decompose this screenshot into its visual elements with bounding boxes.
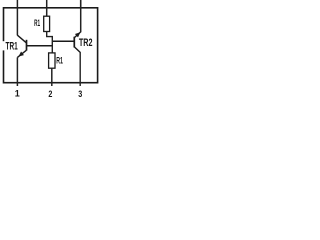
svg-text:2: 2	[48, 89, 52, 99]
svg-text:R1: R1	[56, 55, 63, 65]
svg-text:TR2: TR2	[79, 37, 93, 49]
svg-text:R1: R1	[34, 18, 40, 28]
svg-text:TR1: TR1	[6, 41, 18, 53]
svg-text:3: 3	[78, 89, 82, 99]
svg-text:1: 1	[15, 89, 20, 99]
